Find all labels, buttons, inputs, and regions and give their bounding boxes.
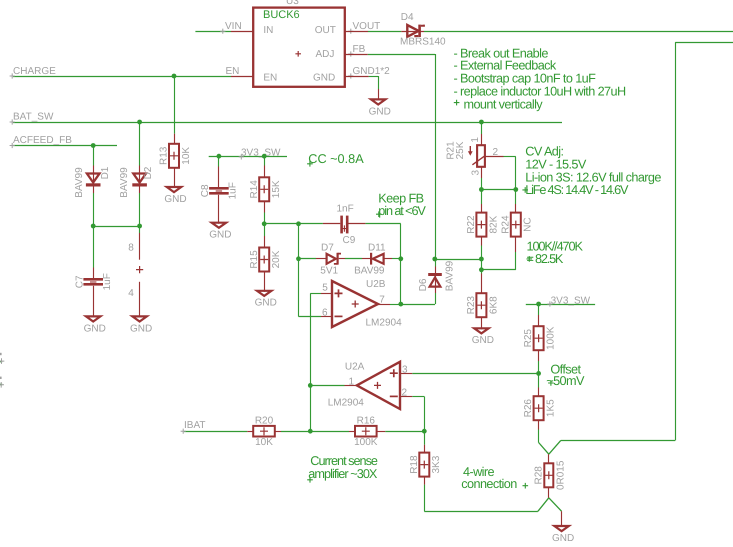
capacitor C9 bbox=[340, 216, 348, 234]
junction R21 wiper node bbox=[479, 187, 484, 192]
pin C7 bottom bbox=[93, 286, 95, 318]
svg-text:U3: U3 bbox=[286, 0, 299, 7]
junction CHARGE-EN/R13 bbox=[172, 74, 177, 79]
svg-text:EN: EN bbox=[263, 72, 277, 83]
svg-text:BAV99: BAV99 bbox=[444, 260, 455, 291]
potentiometer R21 bbox=[468, 145, 485, 167]
resistor R13 bbox=[159, 144, 192, 168]
svg-text:R24: R24 bbox=[500, 215, 511, 234]
pin R28 gnd bbox=[561, 511, 563, 527]
svg-text:IBAT: IBAT bbox=[184, 420, 205, 431]
wire D2 cathode down bbox=[139, 193, 141, 226]
svg-text:R15: R15 bbox=[249, 250, 260, 269]
svg-text:FB: FB bbox=[353, 44, 366, 55]
svg-text:GND: GND bbox=[84, 323, 106, 334]
svg-text:3V3_SW: 3V3_SW bbox=[241, 147, 281, 158]
wire GND1*2 down bbox=[378, 76, 380, 89]
pin C7 top bbox=[93, 268, 95, 279]
pin U3 GND bbox=[345, 76, 369, 78]
svg-text:LiFe 4S: 14.4V - 14.6V: LiFe 4S: 14.4V - 14.6V bbox=[525, 183, 629, 197]
node VOUT origin cross bbox=[348, 29, 353, 34]
ground under R13 bbox=[164, 187, 186, 205]
svg-text:100K: 100K bbox=[546, 326, 557, 350]
wire VOUT net left of D4 bbox=[368, 31, 401, 33]
wire top-right corner horizontal bbox=[675, 42, 733, 44]
svg-text:82K: 82K bbox=[488, 215, 499, 233]
node FB origin cross bbox=[348, 51, 353, 56]
junction ACFEED_FB/D1 bbox=[91, 143, 96, 148]
svg-text:C9: C9 bbox=[343, 235, 356, 246]
pin U3 GND1*2 down bbox=[378, 89, 380, 101]
wire kelvin bottom-left diagonal bbox=[538, 498, 549, 512]
wire C9 right to corner bbox=[365, 223, 400, 225]
wire node to C7 bbox=[93, 226, 95, 268]
svg-text:3: 3 bbox=[470, 169, 481, 175]
svg-text:2: 2 bbox=[402, 387, 408, 398]
pin D2 bottom bbox=[139, 187, 141, 194]
svg-text:LM2904: LM2904 bbox=[328, 397, 365, 408]
pin C9 right bbox=[349, 223, 366, 225]
svg-text:mount vertically: mount vertically bbox=[464, 98, 544, 112]
pin C8 bottom bbox=[218, 195, 220, 224]
pin R14 top bbox=[264, 166, 266, 178]
wire R22 bottom link bbox=[481, 246, 483, 274]
wire U2A pin2 link bbox=[412, 396, 424, 398]
wire right border to kelvin bbox=[561, 440, 675, 442]
wire D6 bottom link bbox=[435, 293, 437, 304]
wire VOUT net right of D4 bbox=[424, 31, 733, 33]
svg-text:ACFEED_FB: ACFEED_FB bbox=[13, 135, 72, 146]
svg-text:pin at <6V: pin at <6V bbox=[378, 204, 426, 218]
svg-text:U2A: U2A bbox=[345, 362, 365, 373]
note 4wire origin cross bbox=[523, 483, 529, 489]
svg-text:= 82.5K: = 82.5K bbox=[527, 252, 564, 266]
note offset origin cross bbox=[548, 380, 554, 386]
svg-text:VIN: VIN bbox=[225, 21, 242, 32]
pin U3 OUT bbox=[345, 31, 368, 33]
pin U2B 6 bbox=[321, 316, 332, 318]
junction 3V3_SW/R25 bbox=[536, 302, 541, 307]
resistor R22 bbox=[466, 213, 499, 237]
junction FB/D6/R22 row bbox=[432, 257, 437, 262]
clipped label speck 2 bbox=[0, 377, 2, 379]
junction D1-bottom node bbox=[91, 224, 96, 229]
wire pin6 link bbox=[299, 316, 322, 318]
wire VIN net bbox=[195, 31, 231, 33]
pin D6 top bbox=[435, 267, 437, 275]
note CV adj origin cross bbox=[522, 187, 528, 193]
wire pin2 vertical bbox=[515, 157, 517, 190]
ground under R28 bbox=[552, 526, 574, 544]
svg-text:GND: GND bbox=[313, 72, 335, 83]
wire U2B out to D6 bbox=[401, 304, 435, 306]
pin D1 top bbox=[93, 166, 95, 174]
svg-text:1: 1 bbox=[470, 137, 481, 143]
wire FB net horizontal bbox=[368, 54, 435, 56]
svg-text:GND: GND bbox=[472, 335, 494, 346]
ground under pin4 bbox=[130, 316, 152, 334]
svg-text:3K3: 3K3 bbox=[431, 455, 442, 473]
wire FB row to R22 bbox=[435, 259, 482, 261]
wire pin2 down to R16 node bbox=[424, 397, 426, 445]
pin U3 EN bbox=[231, 76, 253, 78]
wire R14R15 to C9 row bbox=[264, 223, 323, 225]
wire R21 top bbox=[481, 122, 483, 134]
svg-text:8: 8 bbox=[128, 242, 134, 253]
svg-text:1K5: 1K5 bbox=[546, 399, 557, 417]
svg-text:ADJ: ADJ bbox=[316, 49, 335, 60]
pin R24 top bbox=[515, 204, 517, 213]
pin U3 ADJ bbox=[345, 54, 368, 56]
junction C9 left node bbox=[296, 221, 301, 226]
wire R18 bottom down bbox=[424, 485, 426, 512]
svg-text:C7: C7 bbox=[74, 275, 85, 288]
resistor R23 bbox=[466, 293, 499, 317]
resistor R14 bbox=[249, 177, 282, 201]
note resistor calc origin cross bbox=[527, 256, 533, 262]
wire U2A pin3 net bbox=[412, 373, 538, 375]
wire kelvin top-left diagonal bbox=[539, 443, 549, 455]
wire R20-R16 link bbox=[281, 431, 349, 433]
pin R26 top bbox=[538, 388, 540, 397]
wire wiper link bbox=[481, 189, 515, 191]
node 3V3_SW right origin cross bbox=[547, 301, 552, 306]
wire R15 down bbox=[264, 224, 266, 236]
wire CHARGE to R13 bbox=[174, 76, 176, 134]
svg-text:IN: IN bbox=[263, 25, 273, 36]
wire pin5 vertical to U2A out bbox=[310, 293, 312, 385]
wire ACFEED_FB net bbox=[13, 145, 117, 147]
svg-text:C8: C8 bbox=[200, 184, 211, 197]
svg-text:R25: R25 bbox=[523, 329, 534, 348]
ground under C8 bbox=[209, 223, 231, 241]
svg-text:R14: R14 bbox=[249, 180, 260, 199]
resistor R26 bbox=[523, 396, 556, 420]
svg-text:R28: R28 bbox=[533, 466, 544, 485]
svg-text:D2: D2 bbox=[143, 166, 154, 179]
wire D1-D2 bottom link bbox=[93, 226, 139, 228]
svg-text:12V - 15.5V: 12V - 15.5V bbox=[525, 157, 587, 171]
junction R16/R18/pin2 bbox=[422, 429, 427, 434]
diode D6 bbox=[428, 273, 442, 288]
wire R22 top link bbox=[481, 190, 483, 205]
pin R25 bottom bbox=[538, 350, 540, 361]
svg-text:~50mV: ~50mV bbox=[546, 374, 585, 388]
svg-text:MBRS140: MBRS140 bbox=[400, 37, 446, 48]
pin R18 bottom bbox=[424, 477, 426, 485]
svg-text:GND1*2: GND1*2 bbox=[353, 66, 391, 77]
pin U2 power 8 bbox=[139, 233, 141, 260]
pin U2B 7 out bbox=[378, 304, 390, 306]
svg-text:D4: D4 bbox=[401, 12, 414, 23]
svg-text:25K: 25K bbox=[455, 141, 466, 159]
svg-text:2: 2 bbox=[493, 147, 499, 158]
note buck mods origin cross bbox=[454, 100, 460, 106]
svg-text:5V1: 5V1 bbox=[320, 266, 338, 277]
junction IBAT row / opamp bbox=[308, 429, 313, 434]
pin U2B 5 bbox=[321, 293, 332, 295]
svg-text:- replace inductor 10uH with 2: - replace inductor 10uH with 27uH bbox=[454, 84, 626, 98]
wire kelvin top-right diagonal bbox=[549, 440, 561, 454]
pin R23 bottom bbox=[481, 317, 483, 329]
wire pin5 link bbox=[310, 293, 321, 295]
resistor R28 bbox=[533, 460, 566, 490]
junction D2-bottom node bbox=[137, 224, 142, 229]
wire R24 bottom vertical bbox=[515, 252, 517, 270]
pin R26 bottom bbox=[538, 420, 540, 429]
pin U2A 2 bbox=[400, 396, 412, 398]
pin R13 bottom bbox=[174, 168, 176, 188]
svg-text:0R015: 0R015 bbox=[556, 460, 567, 490]
ground under U3 bbox=[369, 99, 391, 117]
svg-text:R22: R22 bbox=[466, 215, 477, 234]
wire D1 anode up bbox=[93, 146, 95, 166]
svg-text:D6: D6 bbox=[418, 278, 429, 291]
wire GND1*2 stub bbox=[369, 76, 379, 78]
pin R16 left bbox=[349, 431, 355, 433]
junction 3V3_SW/C8 bbox=[217, 154, 222, 159]
pin R18 top bbox=[424, 445, 426, 453]
wire BAT_SW net bbox=[13, 122, 562, 124]
svg-text:D11: D11 bbox=[368, 242, 386, 253]
pin U3 IN bbox=[231, 31, 253, 33]
svg-text:1nF: 1nF bbox=[337, 204, 354, 215]
pin R21 3 bbox=[481, 167, 483, 178]
node ACFEED_FB origin cross bbox=[10, 143, 15, 148]
op-amp U2A bbox=[357, 362, 400, 409]
svg-text:100K: 100K bbox=[354, 437, 378, 448]
svg-text:R13: R13 bbox=[159, 146, 170, 165]
wire EN pulldown pin bbox=[174, 134, 176, 144]
svg-text:Current sense: Current sense bbox=[310, 454, 378, 468]
wire 3V3_SW right net bbox=[526, 304, 595, 306]
pin R24 bottom bbox=[515, 237, 517, 252]
capacitor C7 bbox=[74, 273, 113, 290]
pin R21 1 bbox=[481, 134, 483, 145]
svg-text:20K: 20K bbox=[271, 250, 282, 268]
svg-text:EN: EN bbox=[226, 66, 240, 77]
svg-text:R23: R23 bbox=[466, 296, 477, 315]
pin R21 2 bbox=[485, 156, 504, 158]
svg-text:CV Adj:: CV Adj: bbox=[525, 145, 563, 159]
clipped label speck 1 bbox=[0, 353, 2, 355]
pin R16 right bbox=[377, 431, 386, 433]
wire clipped net stub 1 bbox=[0, 361, 2, 363]
svg-text:7: 7 bbox=[379, 294, 385, 305]
svg-text:GND: GND bbox=[164, 194, 186, 205]
svg-text:6K8: 6K8 bbox=[488, 296, 499, 314]
junction BAT_SW/D2 bbox=[137, 120, 142, 125]
svg-text:D1: D1 bbox=[100, 166, 111, 179]
diode D2 bbox=[132, 172, 147, 186]
junction offset node bbox=[536, 371, 541, 376]
wire D1 cathode down bbox=[93, 193, 95, 226]
svg-text:15K: 15K bbox=[271, 180, 282, 198]
node BAT_SW origin cross bbox=[10, 119, 15, 124]
node IBAT origin cross bbox=[181, 429, 186, 434]
junction BAT_SW/R21 bbox=[479, 120, 484, 125]
pin R22 top bbox=[481, 204, 483, 213]
resistor R16 bbox=[354, 415, 378, 448]
svg-text:R20: R20 bbox=[255, 415, 274, 426]
svg-text:GND: GND bbox=[255, 298, 277, 309]
svg-text:BAV99: BAV99 bbox=[74, 167, 85, 198]
wire D11 right bbox=[392, 258, 401, 260]
pin D6 bottom bbox=[435, 287, 437, 293]
node VIN origin cross bbox=[220, 29, 225, 34]
pin R25 top bbox=[538, 315, 540, 326]
svg-text:CC ~0.8A: CC ~0.8A bbox=[308, 152, 364, 166]
node GND1*2 origin cross bbox=[348, 73, 353, 78]
wire R25-R26 link bbox=[538, 361, 540, 388]
svg-text:OUT: OUT bbox=[315, 25, 336, 36]
wire D7 row left bbox=[299, 258, 317, 260]
pin D7 right bbox=[339, 258, 345, 260]
pin R22 bottom bbox=[481, 237, 483, 246]
resistor R25 bbox=[523, 326, 556, 350]
pin D11 left bbox=[362, 258, 371, 260]
resistor R18 bbox=[409, 453, 442, 477]
wire D6 top link bbox=[435, 259, 437, 267]
wire R25 top link bbox=[538, 304, 540, 315]
clipped label cross 1 bbox=[0, 358, 4, 364]
svg-text:GND: GND bbox=[552, 533, 574, 544]
pin U2A 1 out bbox=[345, 385, 357, 387]
ground under R23 bbox=[472, 328, 494, 346]
svg-text:5: 5 bbox=[322, 282, 328, 293]
diode D11 bbox=[371, 253, 384, 265]
note CC origin cross bbox=[307, 161, 313, 167]
wire node to opamp-power pin8 bbox=[139, 226, 141, 233]
diode D7 zener bbox=[327, 253, 341, 265]
svg-text:CHARGE: CHARGE bbox=[13, 66, 56, 77]
svg-text:U2B: U2B bbox=[366, 279, 386, 290]
junction R14/R15 node bbox=[262, 221, 267, 226]
resistor R24 bbox=[500, 213, 533, 237]
ground under C7 bbox=[84, 316, 106, 334]
pin D11 right bbox=[384, 258, 392, 260]
svg-text:NC: NC bbox=[523, 217, 534, 231]
wire kelvin bottom-right diagonal bbox=[549, 498, 562, 512]
wire clipped net stub 2 bbox=[0, 384, 2, 386]
resistor R20 bbox=[253, 415, 275, 448]
wire IBAT net bbox=[184, 431, 247, 433]
svg-text:BUCK6: BUCK6 bbox=[263, 9, 300, 21]
junction D7 row right bbox=[398, 256, 403, 261]
U2 power origin cross bbox=[136, 266, 143, 273]
pin R15 top bbox=[264, 236, 266, 248]
junction 3V3_SW/R14 bbox=[262, 154, 267, 159]
pin D2 top bbox=[139, 166, 141, 174]
wire U2B out green bbox=[390, 304, 401, 306]
wire CHARGE net bbox=[13, 76, 231, 78]
diode D1 bbox=[86, 172, 101, 186]
junction U2B out node bbox=[398, 302, 403, 307]
pin D7 left bbox=[316, 258, 326, 260]
svg-text:- Bootstrap cap 10nF to 1uF: - Bootstrap cap 10nF to 1uF bbox=[454, 72, 597, 86]
wire R24 bottom link bbox=[481, 269, 515, 271]
svg-text:1uF: 1uF bbox=[102, 273, 113, 290]
pin D1 bottom bbox=[93, 187, 95, 194]
note keep FB origin cross bbox=[376, 211, 382, 217]
clipped label cross 2 bbox=[0, 382, 4, 388]
note current sense origin cross bbox=[307, 477, 313, 483]
svg-text:4: 4 bbox=[128, 288, 134, 299]
svg-text:1uF: 1uF bbox=[227, 182, 238, 199]
wire R18 to R28 kelvin bbox=[424, 511, 538, 513]
svg-text:LM2904: LM2904 bbox=[366, 318, 403, 329]
wire R24 top link bbox=[515, 190, 517, 205]
pin R28 top bbox=[548, 454, 550, 463]
svg-text:GND: GND bbox=[209, 230, 231, 241]
op-amp U2B bbox=[332, 281, 378, 327]
ground under R15 bbox=[255, 291, 277, 309]
junction U2A out node bbox=[308, 383, 313, 388]
pin R15 bottom bbox=[264, 272, 266, 292]
diode D4 MBRS140 bbox=[401, 25, 424, 38]
node CHARGE origin cross bbox=[10, 73, 15, 78]
wire R14 bottom bbox=[264, 213, 266, 224]
wire C8 up bbox=[218, 156, 220, 166]
svg-text:BAV99: BAV99 bbox=[354, 266, 385, 277]
junction R22 bottom bbox=[479, 257, 484, 262]
pin U2A 3 bbox=[400, 373, 412, 375]
pin U2 power 4 bbox=[139, 282, 141, 318]
svg-text:VOUT: VOUT bbox=[353, 21, 381, 32]
pin R20 right bbox=[275, 431, 281, 433]
junction D7 row left bbox=[296, 256, 301, 261]
svg-text:3: 3 bbox=[402, 365, 408, 376]
svg-text:1: 1 bbox=[349, 377, 355, 388]
wire 3V3_SW left net bbox=[209, 156, 287, 158]
wire R16 to pin2 node bbox=[385, 431, 424, 433]
capacitor C8 bbox=[200, 182, 239, 199]
svg-text:BAT_SW: BAT_SW bbox=[13, 112, 54, 123]
wire U2A out green bbox=[310, 385, 344, 387]
junction R23 top node bbox=[479, 267, 484, 272]
svg-text:amplifier ~30X: amplifier ~30X bbox=[308, 467, 378, 481]
svg-text:3V3_SW: 3V3_SW bbox=[551, 295, 591, 306]
wire U2A out down bbox=[310, 385, 312, 431]
pin C8 top bbox=[218, 167, 220, 188]
junction wiper/R24 bbox=[513, 187, 518, 192]
wire left fb vertical bbox=[298, 224, 300, 317]
svg-text:GND: GND bbox=[369, 106, 391, 117]
svg-text:R26: R26 bbox=[523, 399, 534, 418]
svg-text:D7: D7 bbox=[321, 242, 334, 253]
pin R28 bottom bbox=[548, 487, 550, 498]
pin R23 top bbox=[481, 274, 483, 294]
svg-text:R16: R16 bbox=[357, 415, 376, 426]
svg-text:- External Feedback: - External Feedback bbox=[454, 58, 557, 72]
wire R21 pin3 down bbox=[481, 178, 483, 190]
svg-text:BAV99: BAV99 bbox=[119, 167, 130, 198]
svg-text:connection: connection bbox=[461, 477, 517, 491]
wire R26 bottom link bbox=[538, 430, 540, 443]
IC U3 box bbox=[253, 8, 345, 87]
pin R20 left bbox=[247, 431, 253, 433]
wire D2 anode up bbox=[139, 122, 141, 166]
svg-text:10K: 10K bbox=[255, 437, 273, 448]
svg-text:R18: R18 bbox=[409, 455, 420, 474]
wire D7-D11 middle bbox=[345, 258, 362, 260]
wire pot pin2 green bbox=[504, 156, 516, 158]
wire FB net vertical bbox=[435, 54, 437, 259]
resistor R15 bbox=[249, 248, 282, 272]
svg-text:GND: GND bbox=[130, 323, 152, 334]
wire fb-loop right vertical bbox=[400, 224, 402, 304]
node 3V3_SW left origin cross bbox=[239, 154, 244, 159]
